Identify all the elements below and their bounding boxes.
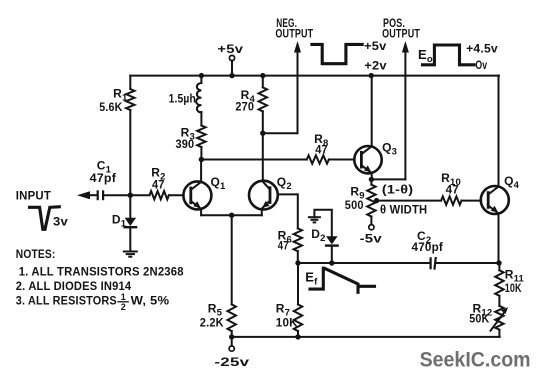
svg-text:270: 270 <box>235 100 254 114</box>
label theta WIDTH <box>380 202 427 216</box>
label note 1 <box>19 265 184 279</box>
wire R1 bottom <box>129 110 131 195</box>
wire L1 to R3 <box>200 112 202 126</box>
power terminal +5v <box>229 55 234 75</box>
resistor R12 pot <box>491 306 509 331</box>
wire R7 bottom <box>297 331 299 337</box>
label R12 50K <box>469 301 492 325</box>
svg-text:+4.5v: +4.5v <box>466 42 498 56</box>
label note 2 <box>16 279 132 293</box>
label R7 10K <box>276 302 298 330</box>
svg-text:2.2K: 2.2K <box>200 315 224 329</box>
resistor R6 <box>294 228 302 251</box>
svg-text:47: 47 <box>446 182 459 196</box>
label R1 5.6K <box>99 87 128 114</box>
wire C2 to Q4 emitter <box>436 262 499 264</box>
resistor R8 <box>307 155 329 163</box>
label (1-theta) <box>382 183 413 197</box>
resistor R4 <box>259 76 267 112</box>
wire R3 bottom <box>200 147 202 160</box>
svg-text:(1-θ): (1-θ) <box>382 183 413 197</box>
junction dot Q4 emitter <box>496 260 501 265</box>
junction dot Q3 collector top <box>369 73 374 78</box>
svg-text:+2v: +2v <box>364 59 387 73</box>
svg-text:47: 47 <box>315 143 328 157</box>
wire input left <box>90 194 98 196</box>
wire Q1 collector to R8 <box>201 159 306 161</box>
svg-text:Q2: Q2 <box>277 175 292 192</box>
wire POS output vertical <box>404 47 406 179</box>
svg-text:3v: 3v <box>53 214 68 228</box>
svg-text:2. ALL DIODES IN914: 2. ALL DIODES IN914 <box>16 279 132 293</box>
junction dot R6 R7 node <box>295 260 300 265</box>
label Q1 <box>211 175 227 192</box>
svg-text:470pf: 470pf <box>412 240 444 254</box>
label D2 <box>311 227 325 244</box>
junction dot D2 bottom <box>329 260 334 265</box>
junction dot R4 top <box>260 73 265 78</box>
junction dot R4 bottom <box>260 131 265 136</box>
transistor Q1 <box>183 160 211 216</box>
label D1 <box>112 212 127 229</box>
diode D2 <box>326 236 338 245</box>
svg-text:47pf: 47pf <box>90 171 117 185</box>
label Q3 <box>382 140 397 157</box>
capacitor C1 <box>98 190 103 200</box>
label 3v <box>53 214 68 228</box>
junction dot L1 top <box>199 73 204 78</box>
label INPUT <box>16 189 52 203</box>
svg-text:10K: 10K <box>505 281 522 295</box>
label Ef <box>305 270 318 288</box>
junction dot R9 wiper <box>374 198 379 203</box>
arrow POS output <box>402 41 409 53</box>
svg-text:47: 47 <box>278 238 289 252</box>
svg-text:D2: D2 <box>311 227 325 244</box>
svg-text:47: 47 <box>152 178 165 192</box>
label R11 10K <box>505 267 525 295</box>
resistor R2 <box>150 191 169 199</box>
power terminal -25v <box>229 337 234 351</box>
wire R5 bottom <box>231 331 233 337</box>
wire NEG output horizontal <box>263 132 298 134</box>
label R4 270 <box>235 88 255 114</box>
label -5v <box>360 232 382 246</box>
svg-text:INPUT: INPUT <box>16 189 52 203</box>
wire D2 ground arm <box>314 210 331 236</box>
label R9 500 <box>345 185 365 213</box>
label R8 47 <box>314 132 328 156</box>
ground D2 <box>308 217 321 222</box>
svg-text:NOTES:: NOTES: <box>16 247 56 261</box>
svg-text:OUTPUT: OUTPUT <box>382 26 420 40</box>
svg-text:+5v: +5v <box>364 39 387 53</box>
arrow NEG output <box>294 41 301 53</box>
label C1 47pf <box>90 158 117 185</box>
junction dot emitter bus <box>229 213 234 218</box>
capacitor C2 <box>431 257 436 270</box>
wire R11 to R12 <box>498 296 500 306</box>
label +5v waveform <box>364 39 387 53</box>
label Eo <box>418 47 433 65</box>
diode D1 <box>125 218 137 227</box>
wire Q2 base to R6 <box>278 194 298 228</box>
label note 3 <box>16 292 170 312</box>
wire bottom bus <box>232 336 500 338</box>
svg-text:5.6K: 5.6K <box>99 100 122 114</box>
wire Q3 emitter to POS <box>371 178 405 180</box>
label R6 47 <box>278 229 292 253</box>
wire R1 top <box>129 76 131 89</box>
svg-text:3. ALL RESISTORS: 3. ALL RESISTORS <box>16 293 117 307</box>
svg-text:-25v: -25v <box>214 355 249 369</box>
transistor Q2 <box>249 133 278 215</box>
label 1.5uh <box>169 92 196 106</box>
wire R12 bottom <box>498 330 500 337</box>
junction dot +5v <box>229 73 234 78</box>
svg-text:10K: 10K <box>276 315 298 329</box>
inductor 1.5uh <box>196 76 201 113</box>
wire input right <box>104 194 131 196</box>
label NOTES heading <box>16 247 56 261</box>
junction dot input node <box>128 193 133 198</box>
wire D1 to ground <box>129 227 131 251</box>
label C2 470pf <box>412 229 444 254</box>
svg-text:Q3: Q3 <box>382 140 397 157</box>
waveform Eo pulse <box>423 45 475 65</box>
wire D2 to node <box>331 246 333 263</box>
resistor R7 <box>294 263 302 331</box>
label NEG OUTPUT <box>275 16 313 40</box>
svg-text:1: 1 <box>121 292 126 302</box>
svg-text:Eo: Eo <box>418 47 433 65</box>
label R2 47 <box>151 166 165 192</box>
svg-text:Q4: Q4 <box>504 174 520 191</box>
label Ov <box>475 58 487 72</box>
waveform Ef sawtooth <box>310 268 375 292</box>
svg-text:50K: 50K <box>469 312 489 326</box>
label +2v waveform <box>364 59 387 73</box>
waveform input pulse <box>30 207 60 230</box>
label -25v <box>214 355 249 369</box>
label Q2 <box>277 175 292 192</box>
svg-text:Ov: Ov <box>475 58 487 72</box>
resistor R11 <box>495 263 503 296</box>
wire R2 to Q1 base <box>169 194 184 196</box>
resistor R9 pot <box>367 179 375 216</box>
ground D1 <box>123 252 138 257</box>
wire R8 to Q3 base <box>329 159 355 161</box>
svg-text:500: 500 <box>345 198 364 212</box>
junction dot R5 bottom <box>229 334 234 339</box>
svg-text:W, 5%: W, 5% <box>131 293 170 307</box>
power terminal -5v <box>369 217 374 230</box>
svg-text:SeekIC.com: SeekIC.com <box>420 349 531 372</box>
svg-text:2: 2 <box>121 302 126 312</box>
transistor Q3 <box>354 76 381 180</box>
junction dot Q1 collector <box>199 157 204 162</box>
svg-text:1. ALL TRANSISTORS 2N2368: 1. ALL TRANSISTORS 2N2368 <box>19 265 184 279</box>
label +4.5v <box>466 42 498 56</box>
resistor R10 <box>441 196 461 204</box>
svg-text:390: 390 <box>176 137 195 151</box>
wire Ef node <box>298 262 430 264</box>
resistor R1 <box>126 89 134 110</box>
svg-text:1.5µh: 1.5µh <box>169 92 196 106</box>
svg-text:OUTPUT: OUTPUT <box>275 26 313 40</box>
label POS OUTPUT <box>382 16 420 40</box>
label Q4 <box>504 174 520 191</box>
arrow INPUT <box>77 191 90 199</box>
resistor R5 <box>228 304 236 331</box>
wire R6 bottom <box>297 251 299 263</box>
wire NEG output vertical <box>297 47 299 133</box>
label R10 47 <box>441 171 461 197</box>
junction dot Q3 emitter <box>369 177 374 182</box>
wire input to D1 <box>129 195 131 218</box>
wire emitter bus to R5 <box>231 215 233 304</box>
svg-text:Ef: Ef <box>305 270 318 288</box>
svg-text:+5v: +5v <box>217 42 243 56</box>
svg-text:-5v: -5v <box>360 232 382 246</box>
svg-text:Q1: Q1 <box>211 175 227 192</box>
wire R4 bottom <box>262 111 264 133</box>
svg-text:D1: D1 <box>112 212 127 229</box>
junction dot R7 bottom <box>295 334 300 339</box>
wire R9 wiper <box>377 200 442 202</box>
label R5 2.2K <box>200 302 224 330</box>
transistor Q4 <box>481 76 509 263</box>
svg-text:θ WIDTH: θ WIDTH <box>380 202 427 216</box>
wire emitter bus <box>201 214 262 216</box>
resistor R3 <box>197 126 205 148</box>
wire +5v top bus <box>130 75 499 77</box>
wire R2 left <box>130 194 149 196</box>
wire R10 to Q4 base <box>462 200 481 202</box>
watermark SeekIC.com <box>420 349 531 372</box>
label +5v supply <box>217 42 243 56</box>
waveform NEG output pulse <box>312 44 362 63</box>
label R3 390 <box>176 126 195 152</box>
